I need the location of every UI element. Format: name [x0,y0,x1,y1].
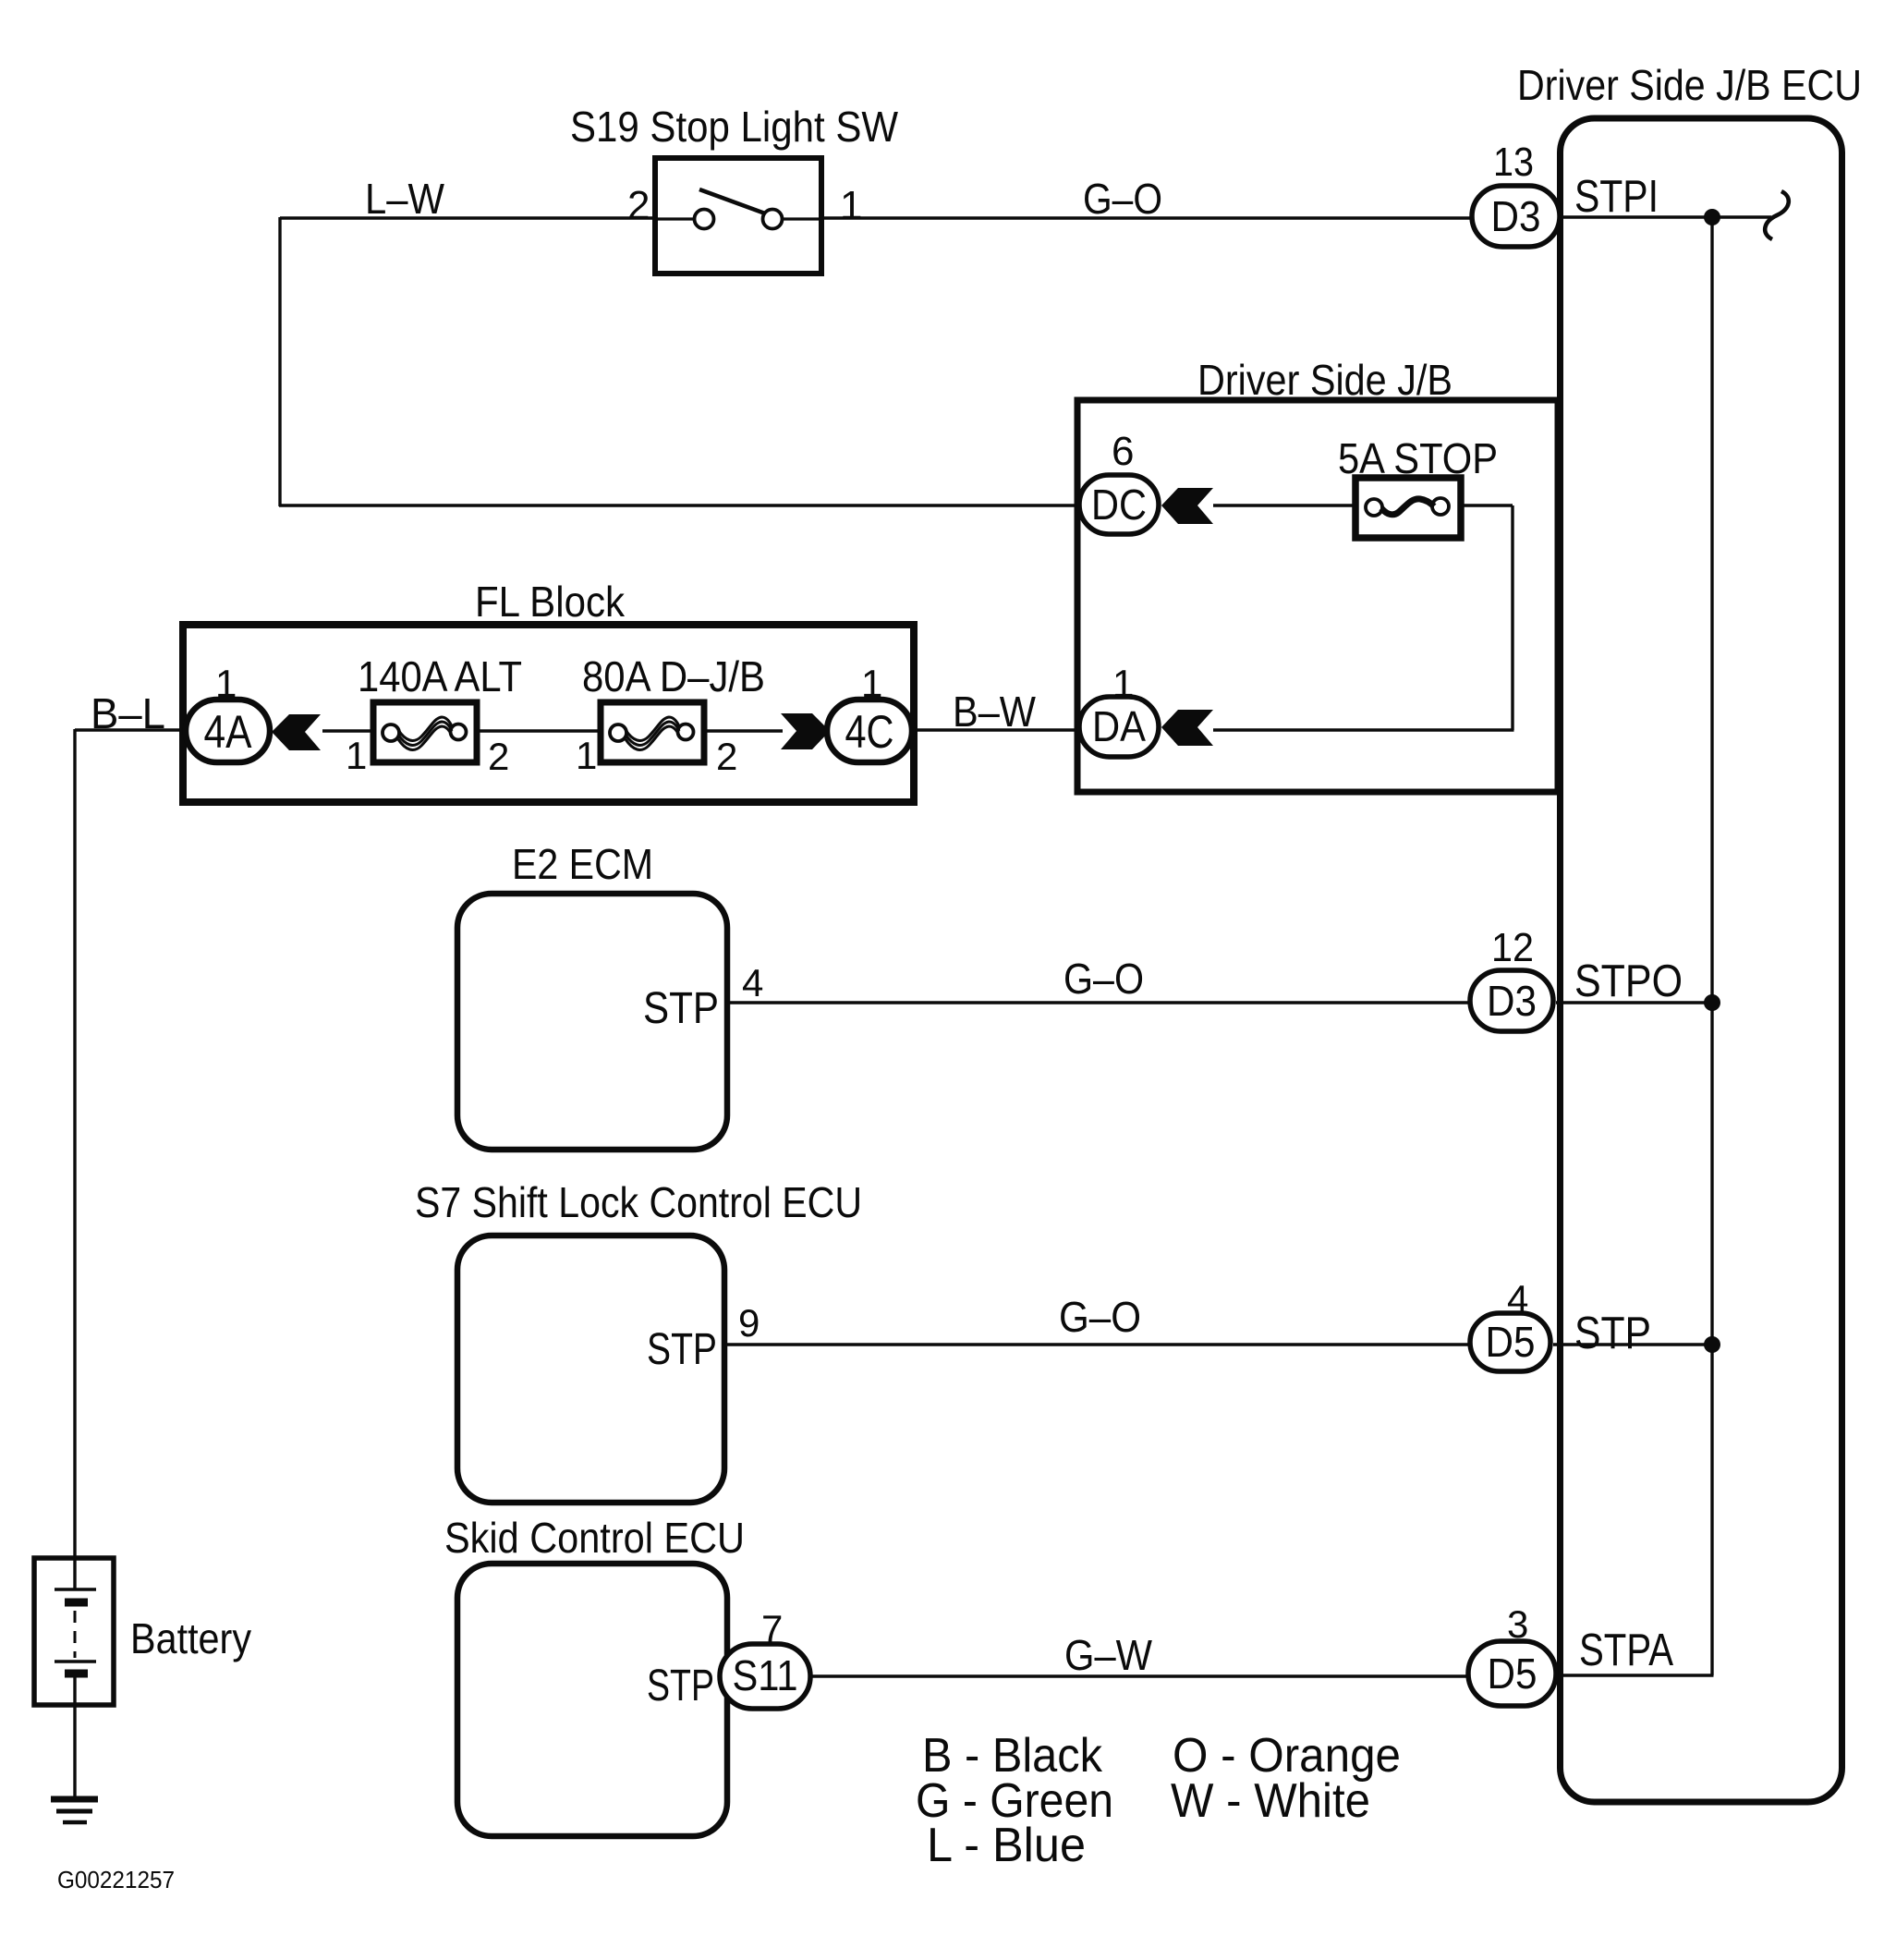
wire STPO inside ECU [1556,1001,1712,1004]
svg-text:STPI: STPI [1574,172,1659,222]
wire 140A fuse to 80A fuse [475,729,603,732]
svg-text:G–W: G–W [1064,1631,1153,1679]
wire corner to DA arrow [1213,728,1514,731]
wire continuation mark right of STPI [1765,191,1789,239]
Skid Control ECU box [457,1564,727,1836]
battery plates [55,1588,96,1591]
svg-text:1: 1 [1112,662,1134,705]
svg-text:FL Block: FL Block [475,578,626,626]
fuse 80A D-J/B terminals and element [610,724,626,741]
svg-text:5A STOP: 5A STOP [1338,434,1498,482]
junction box Driver Side J/B [1077,400,1558,792]
svg-text:DC: DC [1091,481,1147,529]
svg-text:4: 4 [1507,1277,1528,1321]
svg-text:6: 6 [1112,429,1134,474]
svg-text:1: 1 [576,734,597,777]
wire left vertical drop [278,217,281,506]
svg-text:7: 7 [761,1607,783,1650]
switch S19 contact 1 [763,210,783,229]
svg-text:1: 1 [840,183,862,228]
connector S11 pin 7 [720,1644,810,1709]
svg-text:STP: STP [647,1325,717,1374]
connector D5 pin 3 (STPA) [1468,1641,1556,1706]
switch S19 contact 2 [695,210,714,229]
wire L-W from stop light switch to left drop [280,216,656,219]
E2 ECM box [457,894,727,1150]
ground [51,1796,98,1803]
svg-text:2: 2 [488,735,509,778]
svg-text:S19 Stop Light SW: S19 Stop Light SW [570,103,899,151]
svg-text:G–O: G–O [1059,1293,1141,1341]
svg-text:1: 1 [861,662,882,705]
wire main vertical bus inside ECU [1710,217,1713,1675]
wire 5A fuse to corner [1459,504,1513,506]
svg-text:Battery: Battery [130,1614,251,1662]
svg-text:E2 ECM: E2 ECM [512,840,653,888]
svg-text:DA: DA [1092,702,1146,750]
svg-text:STP: STP [643,984,719,1033]
connector D3 pin 13 (STPI) [1472,186,1560,247]
ECU box Driver Side J/B ECU [1561,118,1842,1802]
svg-text:G–O: G–O [1063,955,1144,1003]
wire battery to ground [73,1674,76,1798]
wire G-O E2 ECM to D3 (STPO) [726,1001,1473,1004]
svg-text:4C: 4C [845,706,894,758]
connector D5 pin 4 (STP) [1470,1313,1550,1371]
wire B-L battery feed to 4A [75,728,188,731]
svg-text:W - White: W - White [1171,1774,1370,1828]
svg-text:1: 1 [215,662,237,705]
svg-text:STP: STP [647,1662,714,1710]
svg-text:1: 1 [346,734,367,777]
svg-text:B–L: B–L [91,689,165,737]
svg-text:D5: D5 [1486,1318,1536,1366]
FL Block box [183,625,914,802]
svg-text:4: 4 [742,961,763,1004]
wire G-O S7 to D5 (STP) [723,1343,1473,1345]
connector 4A [186,700,270,762]
svg-text:2: 2 [627,183,650,228]
svg-text:G–O: G–O [1083,175,1162,223]
svg-text:D5: D5 [1488,1650,1537,1698]
fuse 80A D-J/B box [601,702,704,762]
fuse 140A ALT terminals and element [383,724,399,741]
svg-text:L–W: L–W [365,175,445,223]
fuse 5A STOP terminals and element [1366,499,1382,516]
wire switch interior left [655,217,696,220]
svg-text:9: 9 [738,1301,760,1345]
wire switch interior right [781,217,821,220]
arrow into 4C [781,713,830,749]
fuse 5A STOP box [1355,478,1461,538]
svg-text:3: 3 [1507,1602,1528,1646]
svg-text:140A ALT: 140A ALT [358,652,522,700]
connector DA pin 1 [1079,697,1159,757]
svg-text:4A: 4A [204,706,253,758]
svg-text:S7 Shift Lock Control ECU: S7 Shift Lock Control ECU [415,1178,862,1226]
switch box S19 Stop Light SW [655,158,821,274]
wire B-W 4C to DA [910,728,1083,731]
svg-text:13: 13 [1493,140,1534,185]
svg-text:L - Blue: L - Blue [927,1819,1086,1872]
wire bottom of loop to DC [279,504,1083,506]
arrow into DA [1161,710,1213,746]
battery box [34,1558,114,1705]
svg-text:G00221257: G00221257 [57,1866,175,1893]
wire G-W S11 to D5 (STPA) [808,1674,1471,1677]
connector DC pin 6 [1079,475,1159,534]
wire 4A arrow to 140A fuse [322,729,376,732]
connector D3 pin 12 (STPO) [1470,970,1553,1031]
wire STPI inside ECU to continuation [1558,215,1771,218]
connector 4C [827,700,912,762]
switch S19 lever [699,189,765,213]
svg-text:B–W: B–W [953,688,1037,736]
node STPI junction [1704,209,1720,225]
node STPO junction [1704,994,1720,1011]
svg-text:STPO: STPO [1574,956,1683,1006]
svg-text:D3: D3 [1491,192,1541,240]
svg-text:D3: D3 [1487,977,1537,1025]
svg-text:STP: STP [1574,1309,1651,1358]
arrow into 4A [272,714,321,750]
svg-text:Skid Control ECU: Skid Control ECU [444,1514,745,1562]
wire G-O switch to D3 (STPI) [820,216,1475,219]
fuse 140A ALT box [373,702,477,762]
svg-text:STPA: STPA [1579,1625,1673,1675]
svg-text:2: 2 [716,735,737,778]
wire battery vertical [73,729,76,1590]
svg-text:Driver Side J/B ECU: Driver Side J/B ECU [1517,61,1862,109]
wire 80A fuse to 4C arrow [702,729,783,732]
svg-text:80A D–J/B: 80A D–J/B [582,652,765,700]
wire DC arrow to 5A fuse [1213,504,1357,506]
S7 Shift Lock Control ECU box [457,1236,724,1503]
svg-text:Driver Side J/B: Driver Side J/B [1197,356,1452,404]
svg-text:12: 12 [1491,925,1534,970]
wire STPA inside ECU to bus [1558,1674,1714,1676]
wire STP inside ECU [1553,1343,1712,1345]
arrow into DC [1161,488,1213,524]
node STP junction [1704,1336,1720,1353]
svg-text:S11: S11 [733,1651,798,1699]
